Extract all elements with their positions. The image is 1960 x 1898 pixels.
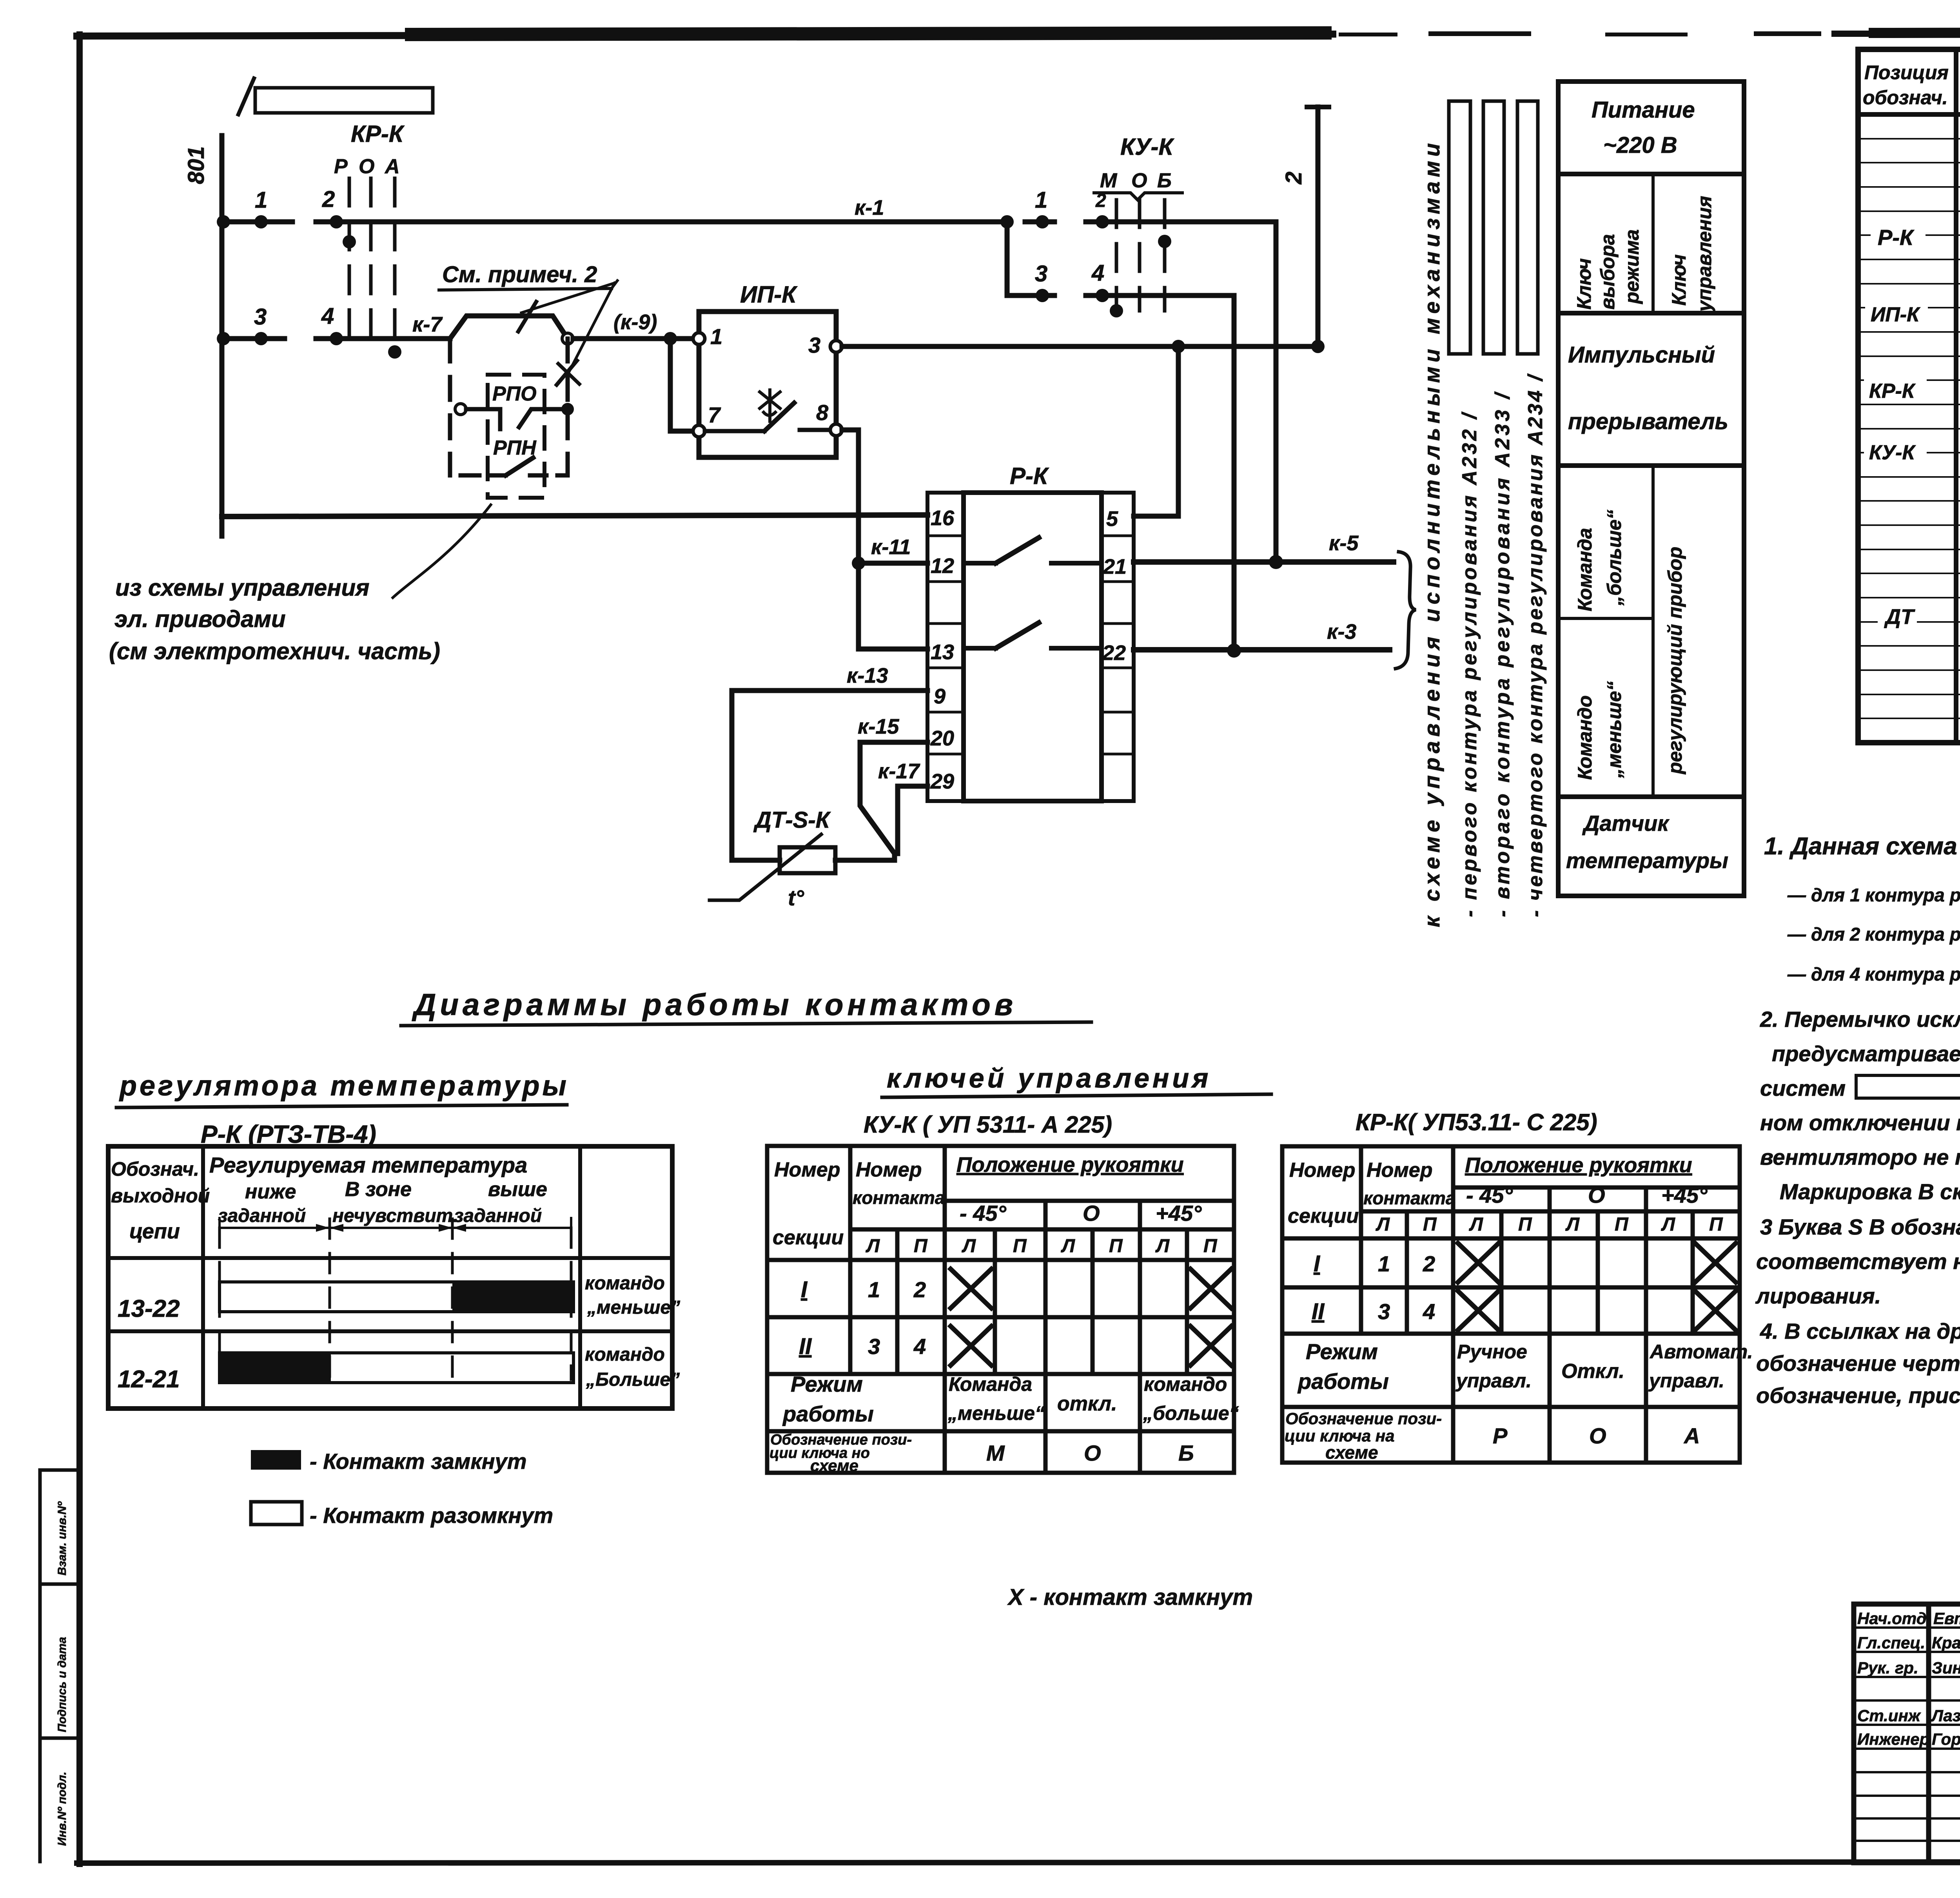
RPO row left lead [466,407,500,412]
svg-text:Подпись и дата: Подпись и дата [56,1637,69,1732]
svg-text:В зоне: В зоне [345,1178,412,1201]
wire k-13 from terminal 9 [732,691,927,860]
svg-text:Командо: Командо [1574,695,1596,780]
svg-text:систем: систем [1760,1076,1846,1100]
wire from pin8 down [842,430,858,649]
svg-text:„меньше“: „меньше“ [947,1402,1045,1424]
svg-text:управл.: управл. [1455,1370,1532,1392]
svg-text:Команда: Команда [949,1373,1032,1395]
svg-text:откл.: откл. [1057,1392,1117,1415]
svg-text:Р-К: Р-К [1010,463,1049,489]
svg-text:Л: Л [866,1236,880,1256]
svg-text:12: 12 [931,554,954,578]
svg-text:13-22: 13-22 [118,1295,180,1322]
svg-text:КУ-К: КУ-К [1869,441,1916,464]
svg-text:А: А [1683,1423,1700,1448]
svg-text:КР-К( УП53.11- С 225): КР-К( УП53.11- С 225) [1356,1109,1597,1135]
wire row1 from bus to contact 1 [222,219,292,225]
svg-text:2: 2 [913,1277,926,1302]
svg-text:1: 1 [1035,187,1047,213]
KU-K row2 wire from contact 4 to vertical [1086,293,1234,298]
junction dot k-9 [664,332,677,345]
svg-text:П: П [1109,1236,1123,1256]
svg-text:4: 4 [913,1334,926,1359]
svg-text:Ст.инж: Ст.инж [1857,1706,1921,1725]
junction dot on B stem [1158,235,1171,248]
svg-text:секции: секции [1288,1205,1359,1227]
svg-text:4: 4 [1091,260,1104,286]
strike mark on bridge [518,302,536,332]
terminal dot 1 [254,215,268,228]
svg-text:к-13: к-13 [847,664,888,687]
legend open contact [251,1502,302,1525]
curly brace grouping k5 k3 [1396,552,1416,669]
svg-text:к-3: к-3 [1327,620,1356,644]
svg-text:П: П [1709,1214,1723,1235]
svg-text:КР-К: КР-К [351,121,405,147]
svg-text:выбора: выбора [1597,234,1619,310]
row2 vertical down to k-3 [1232,295,1237,651]
svg-text:Режим: Режим [791,1372,863,1396]
contact 1-2 gap; wire k-1 from contact 2 [316,219,1007,225]
svg-text:обознач.: обознач. [1863,87,1948,109]
KU-K switch X marks [951,1269,1231,1365]
dimension line with ticks [220,1218,571,1238]
X mark on dashed contact [557,361,577,385]
svg-text:нечувствит.: нечувствит. [332,1206,458,1226]
svg-text:к схеме управления исполнитель: к схеме управления исполнительными механ… [1419,139,1444,927]
svg-text:Евтушенко: Евтушенко [1933,1609,1960,1628]
underline of note [439,288,612,290]
svg-text:командо: командо [585,1344,665,1365]
svg-text:П: П [1615,1214,1629,1235]
svg-text:1. Данная схема применена:: 1. Данная схема применена: [1764,833,1960,860]
svg-text:регулятора температуры: регулятора температуры [119,1070,569,1102]
svg-text:командо: командо [585,1273,665,1294]
contact 13-22 stub [964,646,996,651]
svg-text:ИП-К: ИП-К [740,281,798,308]
svg-text:Номер: Номер [1367,1159,1432,1182]
box impulsnyj preryvatel [1558,313,1744,466]
contact 12-21 stub [964,561,996,566]
svg-text:1: 1 [1378,1251,1390,1276]
svg-text:Ключ: Ключ [1573,258,1595,310]
svg-text:+45°: +45° [1156,1201,1202,1225]
svg-text:Р-К: Р-К [1878,225,1915,250]
svg-text:t°: t° [788,885,804,910]
KP-K dashed stem A [393,178,397,353]
svg-text:управл.: управл. [1648,1370,1724,1392]
right strip cell lines [1102,536,1134,754]
wire 2 vertical with top bar [1307,107,1329,346]
empty revision box [255,88,433,113]
12-21 filled segment [220,1353,331,1383]
svg-text:О: О [1588,1183,1605,1207]
svg-text:4. В ссылках на другие ч: 4. В ссылках на другие чертежи над дробн… [1760,1319,1960,1343]
svg-text:предусматривается в 1 контуре: предусматривается в 1 контуре регулирова… [1772,1041,1960,1066]
svg-text:к-7: к-7 [412,313,443,336]
svg-text:Б: Б [1178,1441,1194,1465]
svg-text:КУ-К: КУ-К [1120,134,1175,160]
junction dot y884 to 5-wire vertical [1172,340,1185,353]
svg-text:командо: командо [1144,1373,1227,1395]
wire k-15 from terminal 20 [860,742,927,860]
svg-text:прерыватель: прерыватель [1568,409,1728,434]
leader arrows from note to bridge and to dashed contact [612,281,617,288]
k-1 junction corner down [1005,222,1010,295]
svg-text:— для 1 контура регулирования: — для 1 контура регулирования систем [1787,885,1960,905]
svg-text:лирования.: лирования. [1755,1283,1881,1308]
svg-text:- первого контура регулировани: - первого контура регулирования А232 / [1458,411,1481,917]
KU-K row1 wire from contact 2 to vertical [1086,219,1276,225]
svg-text:Нач.отд: Нач.отд [1857,1609,1927,1628]
KP-K dashed stem O [369,178,373,353]
box Pitanie 220V [1558,82,1744,174]
svg-text:ном отключении насоса камеры: ном отключении насоса камеры орошения от… [1760,1110,1960,1135]
KR-K switch X marks [1458,1243,1736,1330]
svg-text:Горшенина: Горшенина [1932,1730,1960,1748]
thermo diagonal [710,834,821,900]
svg-text:Обозначение пози-: Обозначение пози- [1285,1409,1442,1428]
junction dot on P stem [343,235,356,248]
terminal dot 3 [254,332,268,345]
interrupter contact arm [764,403,794,431]
junction dot right RPO row [561,403,574,415]
pin 1 circle [693,333,705,344]
svg-text:цепи: цепи [129,1220,180,1243]
svg-text:Лазоренко: Лазоренко [1931,1706,1960,1725]
svg-text:I: I [1314,1251,1321,1276]
svg-text:— для 2 контура регулирования: — для 2 контура регулирования систем [1787,924,1960,944]
svg-text:II: II [799,1334,812,1359]
svg-text:3: 3 [1378,1299,1390,1324]
svg-text:Команда: Команда [1574,528,1596,611]
svg-text:Импульсный: Импульсный [1568,342,1715,368]
svg-text:Л: Л [1661,1214,1675,1235]
svg-text:секции: секции [773,1226,844,1249]
svg-text:~220 В: ~220 В [1603,132,1677,158]
KU-K dashed stem O [1138,200,1142,311]
svg-text:Ключ: Ключ [1668,254,1690,306]
svg-text:„больше“: „больше“ [1143,1402,1239,1424]
svg-text:Л: Л [1565,1214,1580,1235]
svg-text:регулирующий прибор: регулирующий прибор [1664,547,1686,775]
svg-text:вентиляторо не предусматривает: вентиляторо не предусматривается. [1760,1145,1960,1169]
svg-text:Х - контакт замкнут: Х - контакт замкнут [1007,1584,1253,1610]
svg-text:Гл.спец.: Гл.спец. [1857,1633,1925,1652]
revision slash mark [238,78,254,114]
svg-text:7: 7 [708,402,721,427]
svg-text:20: 20 [930,727,954,750]
svg-text:Инв.Nº подл.: Инв.Nº подл. [56,1772,69,1846]
bus bar A234 [1517,101,1538,354]
svg-text:22: 22 [1102,641,1126,665]
wire into 13 [858,647,927,652]
svg-text:3 Буква S В обозначении ап: 3 Буква S В обозначении аппаратуры и В м… [1760,1215,1960,1239]
pin 8 circle [830,424,842,436]
DT resistor body [780,847,835,873]
terminal dot 4 [330,332,343,345]
left strip cell lines [927,536,964,754]
13-22 bar outline [220,1282,573,1312]
jumper bridge hump over dashed contact [450,316,568,339]
wire k-17 from terminal 29 [898,786,927,854]
parts table row lines [1858,139,1960,718]
bus bar A232 [1449,101,1470,354]
dashed branch left of RPO box [448,339,452,475]
svg-text:Р: Р [1493,1423,1508,1448]
svg-text:контакта: контакта [853,1187,945,1208]
svg-text:РПО: РПО [492,383,537,405]
svg-text:Положение рукоятки: Положение рукоятки [956,1153,1184,1177]
svg-text:управления: управления [1693,196,1715,313]
svg-text:См. примеч. 2: См. примеч. 2 [442,262,597,287]
svg-text:Положение рукоятки: Положение рукоятки [1465,1153,1692,1177]
svg-text:2: 2 [1423,1251,1435,1276]
internal wire from pin7 [705,429,764,433]
svg-text:РПН: РПН [493,437,537,459]
svg-text:П: П [914,1236,928,1256]
svg-text:13: 13 [931,640,954,664]
13-22 filled segment [452,1282,573,1312]
svg-text:„Больше”: „Больше” [586,1369,680,1390]
svg-text:- четвертого контура регулиров: - четвертого контура регулирования А234 … [1524,373,1547,917]
svg-text:1: 1 [255,187,267,213]
svg-text:3: 3 [808,333,820,357]
svg-text:II: II [1312,1299,1325,1324]
wire k-7 from contact 4 to bridge [316,336,450,341]
svg-text:ДТ-S-К: ДТ-S-К [753,807,831,833]
svg-text:температуры: температуры [1566,848,1728,873]
svg-text:16: 16 [931,506,955,530]
svg-text:Инженер: Инженер [1857,1730,1929,1748]
corner dot node2-y884 [1311,340,1325,353]
svg-text:О: О [1131,169,1147,192]
svg-text:- втораго контура регулировани: - втораго контура регулирования А233 / [1491,390,1514,917]
pin 3 circle [830,341,842,352]
svg-text:8: 8 [816,400,829,425]
DT left lead [732,858,780,863]
R-K right terminal strip [1102,493,1134,801]
parts table frame [1858,49,1960,743]
box komanda bolshe/menshe + reguliruyushij pribor [1558,466,1744,797]
signature rows [1854,1628,1960,1841]
svg-text:2. Перемычко исключается, а ко: 2. Перемычко исключается, а контакт, пок… [1760,1007,1960,1031]
svg-text:Автомат.: Автомат. [1649,1341,1753,1363]
svg-text:выше: выше [488,1178,547,1201]
svg-text:заданной: заданной [218,1206,306,1226]
svg-text:4: 4 [321,303,334,329]
contact circle left RPO row [455,404,466,415]
svg-text:„меньше“: „меньше“ [1603,681,1625,778]
interrupter symbol (asterisk) [760,390,780,421]
leader curve from RPN to text [393,505,491,598]
wire k-3 [1134,647,1390,653]
small circle right end of bridge [562,333,573,344]
svg-text:к-1: к-1 [855,196,884,219]
IP-K box [699,312,836,457]
KR-K switch table frame [1282,1146,1740,1463]
svg-text:Номер: Номер [856,1158,922,1181]
RPO/RPN inner dashed box [488,375,544,498]
svg-text:Рук. гр.: Рук. гр. [1857,1659,1918,1677]
svg-text:Б: Б [1157,169,1172,192]
DT right lead [835,858,895,863]
box datchik temperatury [1558,797,1744,896]
svg-text:к-5: к-5 [1329,531,1359,555]
svg-text:Л: Л [1061,1236,1075,1256]
svg-text:обозначение чертежа в типовых: обозначение чертежа в типовых решениях, … [1756,1351,1960,1376]
junction dot bus row2 [217,332,230,345]
bus 801 vertical line [220,136,225,536]
svg-text:Красташевsocii: Красташевsocii [1932,1633,1960,1652]
svg-text:(см электротехнич. часть): (см электротехнич. часть) [109,638,440,664]
svg-text:Позиция: Позиция [1864,62,1949,83]
svg-text:Л: Л [1469,1214,1483,1235]
RPO fixed contact hook [498,409,503,429]
RPO row right lead [544,407,568,412]
svg-text:ниже: ниже [245,1180,296,1203]
wire row2 from bus to contact 3 [222,336,285,341]
svg-text:к-11: к-11 [871,535,911,559]
svg-text:эл. приводами: эл. приводами [114,606,286,632]
svg-text:- Контакт разомкнут: - Контакт разомкнут [310,1503,553,1528]
svg-text:- 45°: - 45° [1466,1183,1513,1207]
terminal dot 2 [330,215,343,228]
svg-text:12-21: 12-21 [118,1366,180,1393]
svg-text:Откл.: Откл. [1561,1360,1624,1383]
svg-text:работы: работы [782,1401,874,1426]
svg-text:5: 5 [1106,507,1118,531]
svg-text:Питание: Питание [1592,97,1695,123]
white backing for parts table texts [1864,155,1960,629]
svg-text:ключей управления: ключей управления [887,1063,1211,1093]
svg-text:- Контакт замкнут: - Контакт замкнут [310,1449,527,1474]
junction dot bus row1 [217,215,230,228]
svg-text:ДТ: ДТ [1884,605,1915,629]
svg-text:П: П [1423,1214,1437,1235]
svg-text:схеме: схеме [1325,1442,1378,1463]
wire k-5 [1134,559,1394,565]
svg-text:соответствует номеру системы: соответствует номеру системы, буква К - … [1756,1249,1960,1274]
svg-text:1: 1 [868,1277,880,1302]
svg-text:выходной: выходной [111,1185,210,1207]
dashed branch right of RPO box [566,339,570,475]
contact 12-21 arm [996,538,1039,563]
wire from pin3 to node 2 corner [842,344,1318,349]
contact 13-22 arm [996,623,1039,648]
svg-text:М: М [1100,169,1118,192]
svg-text:„больше“: „больше“ [1603,509,1625,606]
svg-text:ИП-К: ИП-К [1871,303,1920,326]
parts table content [1869,154,1960,630]
svg-text:М: М [986,1441,1005,1465]
dashed zone verticals [220,1219,571,1380]
svg-text:29: 29 [930,770,954,793]
svg-text:Л: Л [962,1236,976,1256]
svg-text:Р: Р [334,155,348,178]
RPN row right lead dashed [530,473,568,478]
12-21 bar outline [220,1353,573,1383]
svg-text:- 45°: - 45° [960,1201,1006,1225]
R-K left terminal strip [927,493,964,801]
svg-text:Номер: Номер [774,1158,840,1181]
bracket line under MOB [1094,193,1182,200]
KU-K switch table frame [767,1146,1234,1473]
svg-text:О: О [1083,1201,1100,1225]
svg-text:Взам. инв.Nº: Взам. инв.Nº [56,1501,69,1575]
svg-text:обозначение, присвоенное чер: обозначение, присвоенное чертежу в данно… [1756,1383,1960,1408]
svg-text:П: П [1013,1236,1027,1256]
KU-K dashed stem B [1163,200,1167,311]
signature texts [1857,1609,1960,1748]
RPO moving arm [519,409,544,427]
svg-text:схеме: схеме [810,1456,858,1475]
svg-text:Л: Л [1376,1214,1390,1235]
svg-text:к-17: к-17 [878,760,920,783]
svg-text:А: А [384,155,400,178]
KU-K row1 contact lead 1 [1025,219,1054,225]
junction dot k-11 [852,557,865,570]
RPN contact arm [506,458,533,475]
junction dot on A stem [388,345,401,359]
branch down to pin 7 [670,339,693,431]
svg-text:из схемы управления: из схемы управления [115,575,369,601]
contact 12-21 right lead [1051,561,1102,566]
vertical from y884 down to 5 wire [1176,346,1181,516]
wire (k-9) from bridge to IP-K junction [573,336,670,341]
svg-text:2: 2 [322,187,335,212]
KP-K dashed stem P [348,178,351,353]
row1 vertical down to k-5 [1274,222,1279,562]
svg-text:Обознач.: Обознач. [111,1158,199,1180]
svg-text:Ручное: Ручное [1457,1341,1527,1363]
svg-text:3: 3 [254,304,267,330]
svg-text:21: 21 [1103,555,1127,578]
wire into pin 1 [670,336,693,341]
legend closed contact [251,1450,301,1470]
bus bar A233 [1483,101,1504,354]
svg-text:Регулируемая температура: Регулируемая температура [209,1153,527,1177]
svg-text:О: О [1084,1441,1101,1465]
junction dot on M stem below row2 [1110,304,1123,317]
svg-text:к-15: к-15 [858,715,899,738]
svg-text:2: 2 [1281,172,1307,185]
temperature table frame [108,1146,672,1409]
svg-text:„меньше”: „меньше” [587,1297,680,1318]
junction dot k-3 vertical [1227,644,1241,658]
svg-text:— для 4 контура регулирования: — для 4 контура регулирования систем [1787,964,1960,984]
svg-text:2: 2 [1095,190,1106,211]
svg-text:Л: Л [1155,1236,1170,1256]
wire k-11 into 12 [858,561,927,566]
svg-text:3: 3 [868,1334,880,1359]
R-K main box [964,493,1102,801]
svg-text:режима: режима [1621,229,1643,305]
svg-text:Диаграммы работы контактов: Диаграммы работы контактов [412,987,1017,1022]
svg-text:П: П [1203,1236,1218,1256]
svg-text:1: 1 [710,324,722,349]
svg-text:О: О [1589,1423,1606,1448]
wire 16 from bottom bus [222,515,927,517]
svg-text:Зингерман: Зингерман [1932,1659,1960,1677]
svg-text:3: 3 [1035,261,1047,286]
KU-K row2 contact lead 3 [1007,293,1054,298]
svg-text:Номер: Номер [1289,1159,1355,1182]
svg-text:П: П [1518,1214,1532,1235]
svg-text:контакта: контакта [1363,1188,1455,1208]
contact 13-22 right lead [1051,646,1102,651]
